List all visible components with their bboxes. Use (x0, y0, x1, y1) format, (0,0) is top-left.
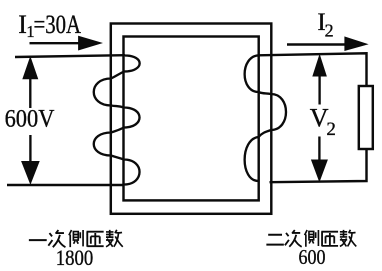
secondary winding coil (600 turns side) (245, 55, 286, 181)
label V2 (310, 104, 336, 140)
svg-text:600V: 600V (5, 104, 55, 133)
primary winding coil (1800 turns side) (94, 56, 140, 185)
transformer core outer rectangle (111, 24, 271, 214)
label I2 (317, 9, 333, 40)
label 二次側匝數 (secondary turns caption) (266, 230, 356, 247)
current arrow I1 (30, 36, 102, 49)
voltage arrow 600V down (22, 135, 39, 184)
wire: primary top lead (15, 55, 125, 57)
voltage arrow 600V up (23, 58, 38, 109)
svg-text:=30A: =30A (34, 10, 82, 39)
transformer core inner rectangle (124, 37, 259, 201)
voltage arrow V2 up (313, 55, 326, 104)
label 一次側匝數 (primary turns caption) (29, 230, 123, 247)
wire: secondary top lead (259, 53, 367, 86)
svg-text:2: 2 (325, 20, 334, 40)
wire: secondary bottom lead (270, 149, 367, 182)
load resistor (secondary load) (359, 86, 373, 149)
voltage arrow V2 down (312, 137, 328, 182)
label I1=30A (18, 10, 81, 41)
current arrow I2 (287, 37, 367, 50)
svg-text:2: 2 (326, 119, 336, 140)
svg-text:600: 600 (299, 245, 326, 269)
wire: primary bottom lead (7, 184, 124, 186)
svg-text:1800: 1800 (56, 245, 93, 270)
